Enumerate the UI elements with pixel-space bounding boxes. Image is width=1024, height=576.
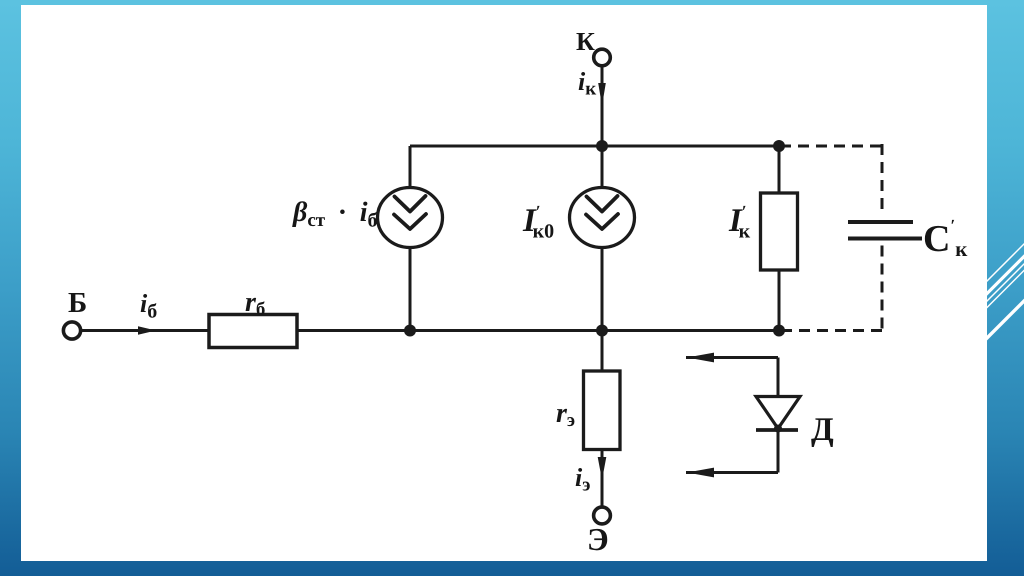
svg-text:I′к: I′к — [728, 202, 751, 243]
wire top bus dashed to capacitor — [780, 145, 882, 148]
node D junction mid-mid — [596, 325, 608, 337]
wire capacitor branch dashed lower — [881, 246, 884, 332]
wire rэ top lead — [601, 331, 604, 372]
wire rэ bottom lead — [601, 450, 604, 508]
wire source U2 bottom lead — [601, 248, 604, 331]
node E junction mid-right — [773, 325, 785, 337]
svg-text:Б: Б — [68, 287, 87, 319]
wire diode top lead — [777, 358, 780, 397]
diode Д top arrow wire — [686, 356, 778, 359]
wire collector lead — [601, 67, 604, 147]
current arrow iк — [598, 83, 606, 106]
wire source U2 top lead — [601, 146, 604, 188]
svg-text:iк: iк — [578, 67, 596, 100]
diode Д triangle — [756, 397, 800, 429]
capacitor C'к plates — [848, 220, 913, 224]
wire r'к bottom lead — [778, 270, 781, 331]
svg-text:Э: Э — [587, 521, 609, 557]
node B junction top-right — [773, 140, 785, 152]
svg-text:Д: Д — [811, 412, 834, 448]
svg-text:С′к: С′к — [923, 216, 968, 261]
node A junction top-mid — [596, 140, 608, 152]
svg-text:iб: iб — [140, 289, 157, 323]
svg-text:rб: rб — [245, 287, 265, 320]
current arrow iэ — [598, 457, 607, 480]
wire middle bus right — [297, 329, 780, 332]
terminal Э — [594, 507, 611, 524]
resistor rэ — [584, 371, 621, 450]
svg-text:βст · iб: βст · iб — [292, 197, 377, 232]
current arrow iб — [138, 326, 156, 335]
wire capacitor branch dashed upper — [881, 144, 884, 213]
current source U1 (βст·iб) — [378, 188, 443, 248]
svg-text:iэ: iэ — [575, 463, 590, 496]
node C junction mid-left — [404, 325, 416, 337]
resistor rб — [209, 315, 297, 348]
diode Д bottom arrow wire — [686, 471, 778, 474]
terminal Б — [63, 322, 80, 339]
diode Д cathode bar — [756, 428, 798, 432]
current source U2 (I'к0) — [570, 188, 635, 248]
svg-text:rэ: rэ — [556, 398, 575, 431]
svg-text:К: К — [576, 27, 595, 56]
terminal К — [594, 49, 611, 66]
resistor r'к — [761, 193, 798, 270]
wire r'к top lead — [778, 146, 781, 193]
wire source U1 top lead — [409, 146, 412, 188]
wire bottom dashed to capacitor — [780, 329, 882, 332]
wire diode bottom lead — [777, 430, 780, 473]
wire middle bus left — [81, 329, 210, 332]
svg-text:I′к0: I′к0 — [522, 202, 554, 243]
wire source U1 bottom lead — [409, 248, 412, 331]
wire top bus — [410, 145, 780, 148]
